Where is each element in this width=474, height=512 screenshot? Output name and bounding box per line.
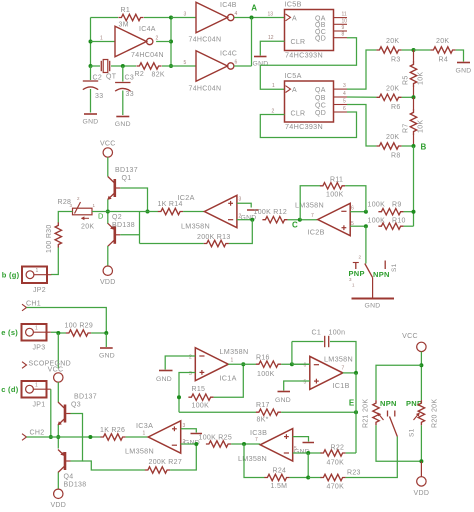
svg-text:1: 1 xyxy=(231,358,234,364)
svg-text:LM358N: LM358N xyxy=(324,355,353,364)
svg-text:GND: GND xyxy=(275,397,291,404)
svg-text:100 R30: 100 R30 xyxy=(46,224,53,253)
svg-text:R2: R2 xyxy=(135,71,145,78)
svg-text:R15: R15 xyxy=(192,386,206,393)
svg-text:200K R13: 200K R13 xyxy=(197,234,231,241)
svg-text:IC3A: IC3A xyxy=(136,421,153,430)
svg-text:B: B xyxy=(421,143,427,152)
svg-text:GND: GND xyxy=(455,68,471,75)
svg-text:100K: 100K xyxy=(257,371,275,378)
svg-text:LM358N: LM358N xyxy=(181,222,210,231)
svg-text:A: A xyxy=(292,87,297,94)
svg-text:QA: QA xyxy=(315,87,326,94)
svg-text:VCC: VCC xyxy=(100,140,116,147)
svg-text:6: 6 xyxy=(343,106,346,112)
svg-text:12: 12 xyxy=(268,35,274,41)
svg-text:CLR: CLR xyxy=(291,111,306,118)
svg-text:74HC393N: 74HC393N xyxy=(285,122,323,131)
svg-text:100 R29: 100 R29 xyxy=(65,323,94,330)
svg-text:JP1: JP1 xyxy=(33,401,46,408)
svg-text:R1: R1 xyxy=(121,7,131,14)
svg-text:GND: GND xyxy=(156,376,172,383)
svg-text:3: 3 xyxy=(343,83,346,89)
svg-text:470K: 470K xyxy=(327,460,345,467)
svg-text:R9: R9 xyxy=(392,202,402,209)
svg-text:S1: S1 xyxy=(409,428,416,437)
svg-text:20K: 20K xyxy=(386,85,399,92)
svg-text:VDD: VDD xyxy=(414,490,430,497)
svg-text:R11: R11 xyxy=(330,177,343,184)
svg-text:3M: 3M xyxy=(119,22,129,29)
svg-text:VCC: VCC xyxy=(402,333,418,340)
svg-text:5: 5 xyxy=(294,446,297,452)
svg-text:20K: 20K xyxy=(386,134,399,141)
svg-text:Q3: Q3 xyxy=(71,402,81,409)
svg-text:6: 6 xyxy=(351,206,354,212)
svg-text:LM358N: LM358N xyxy=(295,201,324,210)
svg-text:C2: C2 xyxy=(93,75,103,82)
svg-text:2: 2 xyxy=(272,108,275,114)
svg-text:S1: S1 xyxy=(391,263,398,272)
svg-text:100K: 100K xyxy=(368,218,386,225)
svg-text:R24: R24 xyxy=(273,468,287,475)
svg-text:C3: C3 xyxy=(125,75,135,82)
svg-text:9: 9 xyxy=(342,25,345,31)
svg-text:R6: R6 xyxy=(391,104,401,111)
svg-text:20K: 20K xyxy=(81,224,94,231)
svg-text:1.5M: 1.5M xyxy=(271,483,288,490)
svg-text:C1: C1 xyxy=(312,330,322,337)
svg-text:QB: QB xyxy=(315,95,326,102)
svg-text:GND: GND xyxy=(99,353,115,360)
svg-text:7: 7 xyxy=(311,213,314,219)
svg-text:5: 5 xyxy=(184,60,187,66)
svg-text:6: 6 xyxy=(304,363,307,369)
svg-text:1K R26: 1K R26 xyxy=(100,427,125,434)
svg-text:74HC04N: 74HC04N xyxy=(189,86,222,93)
svg-text:NPN: NPN xyxy=(380,399,397,408)
svg-text:1: 1 xyxy=(35,383,38,389)
svg-text:IC1B: IC1B xyxy=(333,381,350,390)
svg-text:QD: QD xyxy=(315,36,326,43)
svg-text:33: 33 xyxy=(126,91,134,98)
svg-text:LM358N: LM358N xyxy=(220,347,249,356)
svg-text:20K: 20K xyxy=(386,38,399,45)
svg-text:Q2: Q2 xyxy=(112,214,122,221)
svg-text:3: 3 xyxy=(183,423,186,429)
svg-text:R8: R8 xyxy=(391,153,401,160)
svg-text:BD137: BD137 xyxy=(115,167,138,174)
svg-text:470K: 470K xyxy=(327,484,345,491)
svg-text:IC1A: IC1A xyxy=(220,374,237,383)
svg-text:e (s): e (s) xyxy=(1,328,18,337)
svg-text:BD138: BD138 xyxy=(64,482,87,489)
svg-text:JP2: JP2 xyxy=(33,287,46,294)
svg-text:QD: QD xyxy=(315,110,326,117)
svg-text:QT: QT xyxy=(106,74,117,81)
svg-text:11: 11 xyxy=(342,12,347,18)
svg-text:A: A xyxy=(251,4,257,13)
svg-text:100K R12: 100K R12 xyxy=(254,209,288,216)
svg-text:6: 6 xyxy=(235,60,238,66)
svg-text:R16: R16 xyxy=(256,355,270,362)
svg-text:33: 33 xyxy=(95,93,103,100)
svg-text:10K: 10K xyxy=(418,120,425,133)
svg-text:D: D xyxy=(98,212,104,221)
svg-text:8: 8 xyxy=(342,32,345,38)
svg-text:VCC: VCC xyxy=(48,367,64,374)
svg-text:QC: QC xyxy=(315,102,326,109)
svg-text:R10: R10 xyxy=(392,218,406,225)
svg-text:R21 20K: R21 20K xyxy=(363,399,370,428)
svg-text:3: 3 xyxy=(184,12,187,18)
svg-text:8K*: 8K* xyxy=(257,417,269,424)
svg-text:74HC04N: 74HC04N xyxy=(131,52,164,59)
svg-text:Q1: Q1 xyxy=(122,175,132,182)
svg-text:7: 7 xyxy=(342,366,345,372)
svg-text:10K: 10K xyxy=(418,72,425,85)
svg-text:100K R25: 100K R25 xyxy=(199,435,233,442)
svg-text:R4: R4 xyxy=(439,57,449,64)
svg-text:200K R27: 200K R27 xyxy=(149,459,183,466)
svg-text:LM358N: LM358N xyxy=(238,454,267,463)
svg-text:A: A xyxy=(292,15,297,22)
svg-text:BD138: BD138 xyxy=(112,222,135,229)
svg-text:100K: 100K xyxy=(326,192,344,199)
svg-text:IC4A: IC4A xyxy=(139,26,156,33)
svg-text:VDD: VDD xyxy=(50,502,66,509)
svg-text:4: 4 xyxy=(235,11,238,17)
svg-text:b (g): b (g) xyxy=(2,271,20,280)
svg-text:GND: GND xyxy=(115,121,131,128)
svg-text:LM358N: LM358N xyxy=(125,447,154,456)
svg-text:IC4C: IC4C xyxy=(220,51,237,58)
svg-text:CLR: CLR xyxy=(291,39,306,46)
svg-text:100n: 100n xyxy=(329,330,346,337)
svg-text:GND: GND xyxy=(82,119,98,126)
svg-text:VDD: VDD xyxy=(100,279,116,286)
svg-text:BD137: BD137 xyxy=(74,394,97,401)
svg-text:74HC393N: 74HC393N xyxy=(285,51,323,60)
svg-text:1: 1 xyxy=(35,326,38,332)
svg-text:1: 1 xyxy=(36,268,39,274)
svg-text:4: 4 xyxy=(343,91,346,97)
svg-text:IC3B: IC3B xyxy=(250,428,267,437)
svg-text:IC5B: IC5B xyxy=(285,0,302,9)
svg-text:R3: R3 xyxy=(391,57,401,64)
svg-text:1K R14: 1K R14 xyxy=(158,201,183,208)
svg-text:NPN: NPN xyxy=(373,270,390,279)
svg-text:JP3: JP3 xyxy=(33,344,46,351)
svg-text:1: 1 xyxy=(272,83,275,89)
svg-text:74HC04N: 74HC04N xyxy=(189,37,222,44)
svg-text:5: 5 xyxy=(343,99,346,105)
svg-text:7: 7 xyxy=(255,437,258,443)
svg-text:c (d): c (d) xyxy=(1,385,19,394)
svg-text:R23: R23 xyxy=(347,470,361,477)
svg-text:IC5A: IC5A xyxy=(285,71,302,80)
svg-text:CH1: CH1 xyxy=(26,301,41,308)
svg-text:1: 1 xyxy=(100,36,103,42)
svg-text:R20 20K: R20 20K xyxy=(432,399,439,428)
svg-text:2: 2 xyxy=(156,36,159,42)
svg-text:Q4: Q4 xyxy=(64,474,74,481)
svg-text:R22: R22 xyxy=(331,445,345,452)
svg-text:20K: 20K xyxy=(436,38,449,45)
svg-text:R5: R5 xyxy=(403,75,410,85)
svg-text:IC2A: IC2A xyxy=(178,193,195,202)
svg-text:C: C xyxy=(292,221,298,230)
svg-text:R17: R17 xyxy=(256,402,270,409)
svg-text:13: 13 xyxy=(268,12,274,18)
svg-text:82K: 82K xyxy=(152,72,165,79)
svg-text:CH2: CH2 xyxy=(30,430,45,437)
svg-text:100K: 100K xyxy=(368,202,386,209)
svg-text:E: E xyxy=(349,399,355,408)
svg-text:R7: R7 xyxy=(403,123,410,133)
svg-text:3: 3 xyxy=(239,197,242,203)
svg-text:IC4B: IC4B xyxy=(220,2,237,9)
svg-text:GND: GND xyxy=(365,303,381,310)
svg-text:1: 1 xyxy=(143,431,146,437)
svg-text:IC2B: IC2B xyxy=(308,228,325,237)
svg-text:100K: 100K xyxy=(192,403,210,410)
svg-text:10: 10 xyxy=(342,18,348,24)
